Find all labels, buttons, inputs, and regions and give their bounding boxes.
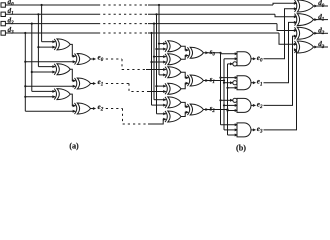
svg-text:e1: e1: [257, 78, 263, 88]
svg-text:s1: s1: [209, 76, 215, 86]
svg-text:s0: s0: [209, 48, 216, 58]
svg-text:e0: e0: [98, 54, 104, 64]
svg-text:e2: e2: [98, 103, 104, 113]
svg-text:d1: d1: [8, 7, 14, 17]
svg-text:d3: d3: [8, 26, 15, 36]
svg-text:d0: d0: [318, 0, 325, 9]
svg-text:(a): (a): [69, 142, 79, 151]
svg-text:d2: d2: [318, 27, 325, 37]
svg-text:d2: d2: [8, 16, 15, 26]
svg-text:e2: e2: [257, 100, 263, 110]
svg-text:(b): (b): [236, 144, 246, 153]
svg-text:e1: e1: [98, 78, 104, 88]
svg-text:s2: s2: [209, 105, 216, 115]
svg-text:d3: d3: [318, 40, 325, 50]
svg-text:e0: e0: [257, 54, 263, 64]
svg-text:d1: d1: [318, 13, 324, 23]
svg-text:e3: e3: [257, 125, 263, 135]
